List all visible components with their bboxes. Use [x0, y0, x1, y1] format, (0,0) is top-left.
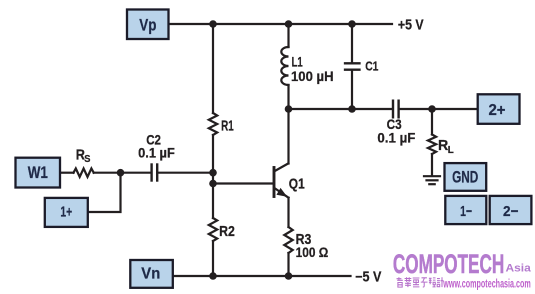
svg-text:W1: W1 [28, 163, 48, 182]
svg-text:COMPOTECH: COMPOTECH [393, 249, 504, 279]
svg-text:S: S [84, 153, 90, 165]
svg-text:Vn: Vn [141, 266, 160, 283]
svg-text:Q1: Q1 [289, 176, 305, 193]
svg-text:+5 V: +5 V [398, 17, 424, 33]
svg-text:Vp: Vp [139, 16, 156, 35]
svg-text:100 Ω: 100 Ω [296, 245, 329, 260]
svg-text:2+: 2+ [488, 102, 505, 119]
svg-text:0.1 µF: 0.1 µF [138, 145, 175, 160]
svg-text:L: L [448, 144, 455, 156]
svg-text:1+: 1+ [60, 205, 72, 221]
svg-text:Asia: Asia [506, 263, 532, 275]
svg-text:−5 V: −5 V [355, 270, 382, 286]
svg-text:www.compotechasia.com: www.compotechasia.com [443, 278, 531, 290]
svg-text:R2: R2 [219, 223, 235, 240]
svg-text:C1: C1 [365, 59, 378, 74]
svg-text:GND: GND [452, 169, 478, 187]
svg-text:1−: 1− [460, 203, 472, 220]
svg-text:100 µH: 100 µH [291, 68, 334, 84]
svg-text:R1: R1 [221, 117, 234, 134]
svg-text:2−: 2− [503, 203, 519, 220]
svg-text:0.1 µF: 0.1 µF [377, 131, 415, 146]
